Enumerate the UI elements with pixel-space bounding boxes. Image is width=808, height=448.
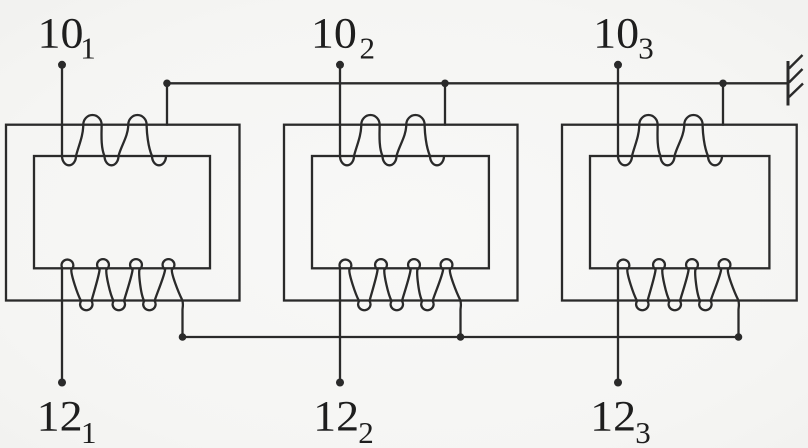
- transformer T1 core outer edge: [6, 125, 240, 301]
- chassis hatch stroke 3: [789, 84, 803, 98]
- secondary winding of T3 (terminal 12_3): [618, 259, 739, 382]
- bottom bus wire (12-side common): [183, 336, 739, 338]
- svg-text:12: 12: [37, 393, 83, 440]
- junction dot: T1 secondary lead on bottom bus: [179, 333, 187, 341]
- terminal dot 10_1: [58, 61, 66, 69]
- top bus wire (10-side common): [167, 82, 788, 84]
- primary winding of T3 (terminal 10_3): [618, 65, 722, 166]
- terminal dot 12_2: [336, 379, 344, 387]
- transformer T3 core outer edge: [562, 125, 797, 301]
- label 12_2: [313, 393, 374, 448]
- primary winding of T2 (terminal 10_2): [340, 65, 444, 166]
- transformer T1 core inner window: [34, 156, 210, 268]
- terminal dot 12_1: [58, 379, 66, 387]
- chassis hatch stroke 1: [789, 55, 803, 69]
- secondary winding of T2 (terminal 12_2): [340, 259, 461, 382]
- svg-text:2: 2: [360, 31, 376, 66]
- svg-text:12: 12: [590, 393, 636, 440]
- label 10_1: [38, 10, 96, 65]
- svg-text:3: 3: [638, 31, 654, 66]
- transformer T3 core inner window: [590, 156, 769, 268]
- svg-text:10: 10: [593, 10, 639, 57]
- svg-text:10: 10: [38, 10, 84, 57]
- primary winding of T1 (terminal 10_1): [62, 65, 166, 166]
- transformer T2 core outer edge: [284, 125, 518, 301]
- secondary winding of T1 (terminal 12_1): [62, 259, 183, 382]
- primary winding right lead wire T2: [444, 83, 446, 124]
- terminal dot 10_3: [614, 61, 622, 69]
- transformer T2 core inner window: [312, 156, 489, 268]
- junction dot: T3 primary lead on top bus: [719, 80, 727, 88]
- label 10_2: [311, 10, 375, 65]
- junction dot: T3 secondary lead on bottom bus: [735, 333, 743, 341]
- svg-text:1: 1: [80, 31, 96, 66]
- chassis/frame termination bar: [787, 61, 790, 106]
- primary winding right lead wire T3: [722, 83, 724, 124]
- label 12_3: [590, 393, 651, 448]
- terminal dot 10_2: [336, 61, 344, 69]
- chassis hatch stroke 2: [789, 69, 803, 83]
- label 12_1: [37, 393, 97, 448]
- terminal dot 12_3: [614, 379, 622, 387]
- label 10_3: [593, 10, 654, 65]
- junction dot: T2 secondary lead on bottom bus: [457, 333, 465, 341]
- svg-text:1: 1: [81, 415, 97, 448]
- svg-text:3: 3: [635, 415, 651, 448]
- svg-text:10: 10: [311, 10, 357, 57]
- svg-text:2: 2: [358, 415, 374, 448]
- svg-text:12: 12: [313, 393, 359, 440]
- junction dot: T2 primary lead on top bus: [441, 80, 449, 88]
- junction dot: T1 primary lead on top bus: [163, 80, 171, 88]
- primary winding right lead wire T1: [166, 83, 168, 124]
